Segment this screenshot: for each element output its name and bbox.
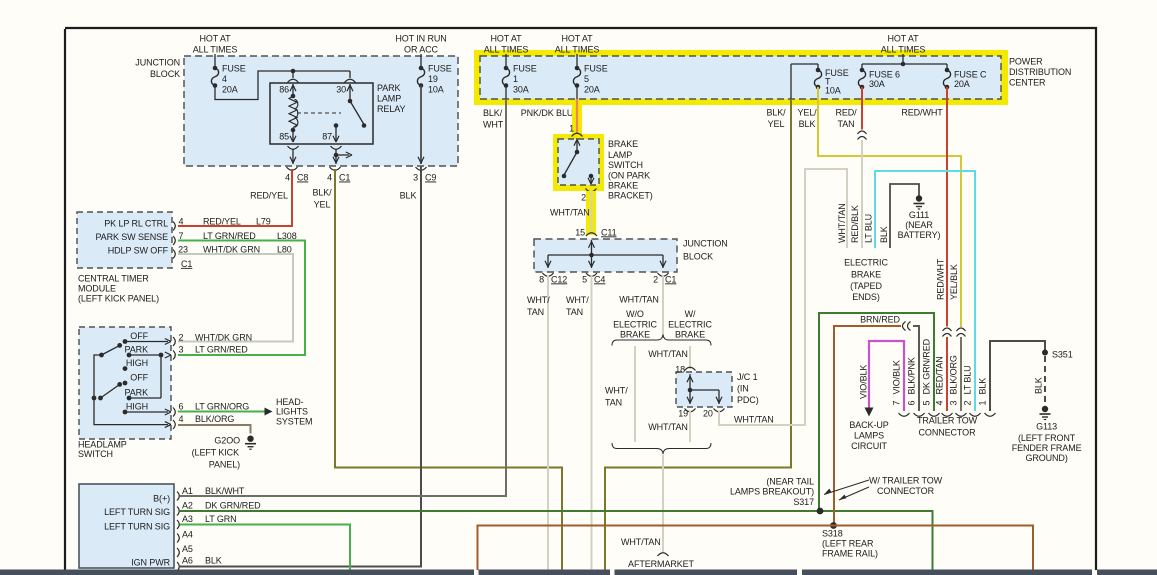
- svg-text:LIGHTS: LIGHTS: [276, 407, 308, 417]
- wire DK GRN/RED A2 across: [180, 511, 933, 570]
- wire BRN/RED to inline connector: [834, 326, 901, 526]
- svg-text:B(+): B(+): [153, 493, 170, 503]
- CTM pin 23: [173, 244, 292, 258]
- relay output connectors below box: [288, 146, 342, 149]
- wire 85 to C8: [290, 149, 296, 164]
- svg-text:A3: A3: [182, 514, 193, 524]
- svg-text:BLK/PNK: BLK/PNK: [907, 357, 917, 394]
- svg-text:BLOCK: BLOCK: [683, 251, 713, 261]
- svg-text:SYSTEM: SYSTEM: [276, 417, 312, 427]
- aftermarket connector: [658, 553, 669, 556]
- connector C4: [582, 273, 605, 284]
- svg-text:PANEL): PANEL): [209, 459, 240, 469]
- svg-text:WHT/TAN: WHT/TAN: [648, 422, 688, 432]
- svg-text:HOT AT: HOT AT: [490, 33, 522, 43]
- module pin A5: [177, 544, 193, 557]
- label WHT/TAN (C4): [566, 295, 589, 317]
- wire LT GRN/RED CTM7 to HS3: [178, 241, 305, 356]
- svg-text:5: 5: [582, 274, 587, 284]
- wire WHT/TAN pin 19 down: [689, 411, 691, 443]
- wire BLK to G111: [890, 184, 919, 248]
- trailer tow connector pin 7 VIO/BLK: [892, 360, 910, 416]
- svg-text:PNK/DK BLU: PNK/DK BLU: [521, 108, 574, 118]
- svg-text:A4: A4: [182, 529, 193, 539]
- svg-text:GROUND): GROUND): [1025, 453, 1067, 463]
- svg-text:C1: C1: [339, 173, 350, 183]
- svg-text:FUSE: FUSE: [584, 64, 608, 74]
- junction connector J/C 1: [676, 372, 759, 407]
- label YEL/BLK: [797, 108, 817, 130]
- connector C1 exit: [327, 167, 350, 183]
- svg-text:19: 19: [428, 74, 438, 84]
- wire LT BLU taped end to trailer pin 2: [875, 171, 975, 411]
- svg-text:5: 5: [922, 401, 932, 406]
- brace merge: [612, 443, 711, 454]
- svg-text:A1: A1: [182, 486, 193, 496]
- connector C11: [575, 227, 616, 237]
- HS position labels: [125, 331, 149, 412]
- trailer tow connector pin 2 LT BLU: [963, 365, 981, 416]
- svg-text:OFF: OFF: [130, 331, 148, 341]
- node HOT AT ALL TIMES (fuses 6 and C): [881, 33, 926, 54]
- svg-text:LAMPS: LAMPS: [854, 430, 884, 440]
- wire BLK/ORG to G2OO: [178, 425, 251, 434]
- HS pin 6: [165, 401, 249, 416]
- svg-text:6: 6: [907, 401, 917, 406]
- svg-text:FRAME RAIL): FRAME RAIL): [822, 548, 878, 558]
- svg-text:BLK: BLK: [799, 119, 816, 129]
- svg-text:DISTRIBUTION: DISTRIBUTION: [1009, 67, 1071, 77]
- svg-text:BLK/WHT: BLK/WHT: [205, 486, 245, 496]
- svg-text:BLK: BLK: [879, 226, 889, 243]
- svg-text:LT GRN/RED: LT GRN/RED: [203, 231, 256, 241]
- svg-text:BRAKE: BRAKE: [675, 330, 705, 340]
- svg-text:OFF: OFF: [130, 373, 148, 383]
- relay pin 30: [336, 84, 353, 101]
- CTM pin 7: [173, 231, 297, 245]
- svg-text:20A: 20A: [954, 79, 970, 89]
- wire 87 to C1 with branch: [333, 149, 352, 164]
- svg-text:4: 4: [179, 414, 184, 424]
- svg-text:TRAILER TOW: TRAILER TOW: [917, 415, 978, 425]
- svg-text:10A: 10A: [825, 85, 841, 95]
- trailer tow connector pin 1 BLK: [978, 378, 996, 417]
- brake lamp switch highlight: [553, 134, 604, 191]
- svg-text:BATTERY): BATTERY): [898, 230, 941, 240]
- svg-text:YEL: YEL: [768, 119, 785, 129]
- svg-text:4: 4: [327, 173, 332, 183]
- connector C12: [539, 273, 567, 284]
- svg-text:YEL/: YEL/: [797, 108, 817, 118]
- PDC bus to fuse T: [791, 64, 818, 99]
- svg-text:4: 4: [285, 173, 290, 183]
- svg-text:RED/WHT: RED/WHT: [901, 108, 943, 118]
- svg-text:SWITCH: SWITCH: [608, 160, 643, 170]
- junction block (left): [135, 56, 458, 166]
- svg-text:WHT/: WHT/: [605, 385, 628, 395]
- svg-text:C11: C11: [601, 227, 617, 237]
- svg-text:20A: 20A: [584, 84, 600, 94]
- node HOT AT ALL TIMES (fuse 4): [193, 33, 238, 58]
- svg-text:BLK: BLK: [978, 378, 988, 395]
- svg-text:G113: G113: [1036, 421, 1057, 431]
- svg-text:YEL/BLK: YEL/BLK: [949, 264, 959, 300]
- svg-text:30A: 30A: [869, 79, 885, 89]
- svg-text:BRAKE: BRAKE: [608, 139, 638, 149]
- svg-text:A5: A5: [182, 544, 193, 554]
- svg-text:TAN: TAN: [527, 307, 544, 317]
- relay coil/contact entry connectors: [288, 79, 356, 82]
- label WHT/TAN (left branch): [605, 385, 628, 407]
- HS contact OFF2: [123, 381, 128, 386]
- wire WHT/DK GRN CTM23 to HS2: [178, 254, 293, 342]
- svg-text:7: 7: [892, 401, 902, 406]
- svg-text:LEFT TURN SIG: LEFT TURN SIG: [104, 521, 170, 531]
- splice S351: [1042, 349, 1073, 359]
- ground G113: [1012, 406, 1082, 463]
- svg-text:LT GRN/RED: LT GRN/RED: [195, 344, 248, 354]
- ground G111: [898, 195, 941, 240]
- svg-text:LT GRN/ORG: LT GRN/ORG: [195, 401, 249, 411]
- svg-text:PK LP RL CTRL: PK LP RL CTRL: [104, 218, 168, 228]
- svg-text:ELECTRIC: ELECTRIC: [668, 319, 712, 329]
- svg-text:DK GRN/RED: DK GRN/RED: [922, 338, 932, 394]
- HS contact PARK2: [127, 396, 161, 401]
- svg-text:1: 1: [978, 401, 988, 406]
- svg-text:20: 20: [703, 408, 713, 418]
- svg-text:BRAKE: BRAKE: [608, 180, 638, 190]
- svg-text:LEFT TURN SIG: LEFT TURN SIG: [104, 507, 170, 517]
- svg-text:3: 3: [949, 401, 959, 406]
- svg-text:CENTER: CENTER: [1009, 77, 1046, 87]
- J/C1 pin 20: [703, 408, 725, 418]
- svg-text:3: 3: [413, 173, 418, 183]
- wire RED/TAN to trailer pin 4: [946, 337, 948, 411]
- svg-text:RED/YEL: RED/YEL: [203, 216, 241, 226]
- svg-text:WHT/TAN: WHT/TAN: [837, 203, 847, 243]
- svg-text:A6: A6: [182, 555, 193, 565]
- svg-text:ALL TIMES: ALL TIMES: [484, 45, 529, 55]
- svg-text:23: 23: [178, 244, 188, 254]
- svg-text:ALL TIMES: ALL TIMES: [555, 45, 600, 55]
- inline connector on YEL/BLK: [957, 328, 966, 331]
- svg-text:IGN PWR: IGN PWR: [131, 557, 170, 567]
- wire WHT/TAN highlight: [586, 191, 596, 235]
- svg-text:2: 2: [653, 274, 658, 284]
- svg-text:BRN/RED: BRN/RED: [860, 314, 900, 324]
- svg-text:FUSE: FUSE: [513, 64, 537, 74]
- pointer arrows: [824, 480, 869, 500]
- HS wiper arm 1: [99, 343, 122, 357]
- CTM caption: [78, 273, 159, 303]
- svg-text:TAN: TAN: [605, 397, 622, 407]
- HS contact OFF1: [123, 339, 168, 344]
- svg-text:C1: C1: [665, 274, 676, 284]
- HS pin 3: [165, 344, 248, 359]
- fuse 4 20A: [211, 56, 245, 94]
- connector C9 exit: [413, 167, 436, 183]
- HS common rail: [92, 355, 168, 425]
- svg-text:BLK/ORG: BLK/ORG: [949, 355, 959, 394]
- svg-text:C4: C4: [594, 274, 605, 284]
- fuse 6 30A: [858, 64, 900, 89]
- relay pin 87: [322, 123, 339, 142]
- svg-text:CONNECTOR: CONNECTOR: [877, 486, 935, 496]
- label BLK/YEL: [312, 187, 332, 209]
- svg-text:6: 6: [179, 401, 184, 411]
- relay pin 85: [279, 130, 296, 142]
- HS pin 2: [165, 332, 252, 346]
- svg-text:WHT: WHT: [483, 120, 504, 130]
- svg-text:FUSE: FUSE: [222, 64, 246, 74]
- svg-text:CONNECTOR: CONNECTOR: [919, 428, 977, 438]
- CTM pin 4: [173, 216, 271, 230]
- bottom section bar: [0, 570, 1157, 575]
- trailer tow connector pin 4 RED/TAN: [935, 356, 953, 416]
- HS contact HIGH1: [123, 366, 128, 371]
- svg-text:JUNCTION: JUNCTION: [135, 57, 180, 67]
- svg-text:30A: 30A: [513, 84, 529, 94]
- wire WHT/TAN C12 down: [547, 275, 549, 570]
- svg-text:W/ TRAILER TOW: W/ TRAILER TOW: [869, 475, 943, 485]
- svg-text:FENDER FRAME: FENDER FRAME: [1012, 443, 1082, 453]
- trailer tow connector pin 3 BLK/ORG: [949, 355, 967, 416]
- wire WHT/TAN pin 20 to taped end: [719, 169, 847, 425]
- inline connector on RED/WHT: [943, 328, 952, 331]
- svg-text:BLK: BLK: [205, 555, 222, 565]
- J/C1 pin 18: [675, 364, 695, 390]
- svg-text:RELAY: RELAY: [377, 104, 405, 114]
- label BACK-UP LAMPS CIRCUIT: [849, 420, 888, 451]
- HS contact PARK1: [127, 353, 164, 398]
- central timer module: [77, 212, 172, 268]
- svg-text:(NEAR TAIL: (NEAR TAIL: [766, 476, 814, 486]
- brake switch pin 2: [581, 176, 596, 202]
- svg-text:4: 4: [222, 74, 227, 84]
- wire DK GRN/RED pin5 to S317: [819, 313, 934, 509]
- wire WHT/TAN C4 down: [591, 275, 593, 570]
- relay armature (30 to 87): [348, 99, 367, 128]
- wire BLK/WHT fuse1 to module A1: [180, 99, 506, 496]
- svg-text:C1: C1: [181, 259, 192, 269]
- J/C1 internal bus: [687, 388, 722, 404]
- label TRAILER TOW CONNECTOR: [917, 415, 978, 437]
- wire BLK/ORG to trailer pin 3: [960, 337, 962, 411]
- wire PNK/DK BLU highlight: [572, 103, 582, 136]
- svg-text:G111: G111: [909, 210, 929, 220]
- label W/O ELECTRIC BRAKE: [613, 309, 657, 340]
- svg-text:HOT AT: HOT AT: [887, 33, 919, 43]
- brake lamp switch S1: [558, 139, 653, 200]
- relay internal dashed link: [297, 112, 341, 114]
- svg-text:TAN: TAN: [837, 119, 854, 129]
- wire BLK/YEL C1 down and across: [335, 169, 562, 570]
- wire RED/WHT fuse C down: [946, 87, 948, 327]
- svg-text:BLK: BLK: [400, 190, 417, 200]
- relay coil: [289, 94, 298, 133]
- svg-text:4: 4: [935, 401, 945, 406]
- svg-text:2: 2: [581, 192, 586, 202]
- svg-text:PARK: PARK: [377, 83, 401, 93]
- svg-text:87: 87: [322, 132, 332, 142]
- svg-text:30: 30: [336, 85, 346, 95]
- fuse 19 10A: [417, 56, 451, 94]
- wire WHT/TAN w/ electric brake branch: [689, 346, 691, 369]
- connector C1 (JB2): [653, 273, 676, 284]
- wire YEL/BLK fuse T to trailer pin 3: [818, 87, 961, 327]
- power distribution center box: [480, 56, 1071, 99]
- svg-text:1: 1: [513, 74, 518, 84]
- svg-text:C9: C9: [425, 173, 436, 183]
- svg-text:TAN: TAN: [566, 307, 583, 317]
- svg-text:ELECTRIC: ELECTRIC: [844, 257, 888, 267]
- wire RED/YEL C8 to CTM pin 4: [178, 169, 292, 226]
- splice S317: [817, 508, 824, 515]
- svg-text:S318: S318: [822, 528, 843, 538]
- svg-text:ENDS): ENDS): [852, 292, 880, 302]
- power distribution center highlight: [474, 50, 1008, 105]
- fuse T 10A: [814, 64, 848, 95]
- svg-text:8: 8: [539, 274, 544, 284]
- label NEAR TAIL LAMPS BREAKOUT S317: [730, 476, 814, 507]
- svg-text:LAMP: LAMP: [608, 150, 632, 160]
- svg-text:WHT/TAN: WHT/TAN: [550, 208, 590, 218]
- svg-text:WHT/TAN: WHT/TAN: [648, 349, 688, 359]
- svg-text:RED/BLK: RED/BLK: [850, 205, 860, 243]
- inline connector BRN/RED to BLK/PNK: [903, 322, 906, 331]
- HS wiper arm 2: [98, 382, 122, 400]
- fuse 5 20A: [573, 54, 607, 99]
- wire BLK/PNK to trailer pin 6: [913, 326, 919, 411]
- svg-text:S351: S351: [1052, 349, 1073, 359]
- svg-text:C8: C8: [297, 173, 308, 183]
- svg-text:DK GRN/RED: DK GRN/RED: [205, 500, 261, 510]
- svg-text:BRAKE: BRAKE: [620, 330, 650, 340]
- label S318 LEFT REAR FRAME RAIL: [822, 528, 878, 558]
- svg-text:(LEFT FRONT: (LEFT FRONT: [1018, 433, 1076, 443]
- svg-text:(LEFT KICK PANEL): (LEFT KICK PANEL): [78, 293, 159, 303]
- wire RED/TAN fuse 6: [861, 87, 863, 130]
- label WHT/TAN (C12): [527, 295, 550, 317]
- svg-text:20A: 20A: [222, 84, 238, 94]
- label BLK/WHT: [483, 108, 504, 130]
- wire RED/BLK taped end: [861, 140, 863, 248]
- svg-text:5: 5: [584, 74, 589, 84]
- relay pin 86: [279, 84, 296, 96]
- wire WHT/TAN brake switch to C11: [591, 191, 593, 233]
- svg-text:WHT/TAN: WHT/TAN: [734, 415, 774, 425]
- svg-text:L80: L80: [277, 244, 292, 254]
- svg-text:19: 19: [678, 408, 688, 418]
- svg-text:ALL TIMES: ALL TIMES: [193, 45, 238, 55]
- svg-text:HIGH: HIGH: [126, 402, 148, 412]
- svg-text:BLK: BLK: [1034, 377, 1044, 394]
- wire WHT/TAN w/o electric brake branch: [634, 346, 636, 442]
- svg-text:VIO/BLK: VIO/BLK: [859, 365, 869, 399]
- svg-text:LT BLU: LT BLU: [963, 365, 973, 394]
- svg-text:HEAD-: HEAD-: [276, 397, 304, 407]
- svg-text:L308: L308: [277, 231, 297, 241]
- wire fuse4 to relay bus: [215, 69, 350, 100]
- node HOT AT ALL TIMES (fuse 1): [484, 33, 529, 54]
- splice S318: [830, 522, 837, 529]
- svg-text:4: 4: [179, 216, 184, 226]
- svg-text:LT GRN: LT GRN: [205, 514, 237, 524]
- label RED/TAN: [835, 108, 857, 130]
- svg-text:LAMPS BREAKOUT): LAMPS BREAKOUT): [730, 486, 814, 496]
- svg-text:RED/: RED/: [835, 108, 857, 118]
- wire BLK C9 to module A6: [180, 166, 421, 567]
- svg-text:(LEFT KICK: (LEFT KICK: [192, 447, 239, 457]
- node HOT AT ALL TIMES (fuse 5): [555, 33, 600, 54]
- inline connector on RED/TAN: [858, 131, 867, 134]
- svg-text:(IN: (IN: [737, 383, 749, 393]
- headlamp switch: [79, 327, 171, 439]
- svg-text:1: 1: [569, 123, 574, 133]
- PDC bus hot at all times: [862, 54, 947, 66]
- module pin A1: [177, 486, 245, 501]
- wire LT GRN A3: [180, 525, 350, 571]
- module pin A6: [177, 555, 222, 571]
- svg-text:YEL: YEL: [314, 199, 331, 209]
- wire BLK pin 1 to S351: [990, 341, 1045, 411]
- trailer tow connector pin 6 BLK/PNK: [907, 357, 925, 416]
- label BLK/YEL (PDC): [766, 108, 786, 130]
- svg-text:VIO/BLK: VIO/BLK: [892, 360, 902, 394]
- HS pin 4: [165, 414, 235, 429]
- svg-text:18: 18: [675, 364, 685, 374]
- brace split: [612, 335, 711, 346]
- svg-text:(LEFT REAR: (LEFT REAR: [822, 538, 874, 548]
- svg-text:ELECTRIC: ELECTRIC: [613, 319, 657, 329]
- svg-text:15: 15: [575, 227, 585, 237]
- label W/ ELECTRIC BRAKE: [668, 309, 712, 340]
- svg-text:2: 2: [179, 332, 184, 342]
- svg-text:(NEAR: (NEAR: [905, 220, 933, 230]
- svg-text:WHT/DK GRN: WHT/DK GRN: [195, 332, 252, 342]
- svg-text:HDLP SW OFF: HDLP SW OFF: [108, 245, 169, 255]
- svg-text:BLK/ORG: BLK/ORG: [195, 414, 234, 424]
- svg-text:SWITCH: SWITCH: [78, 449, 113, 459]
- svg-text:WHT/: WHT/: [527, 295, 550, 305]
- svg-text:WHT/TAN: WHT/TAN: [621, 537, 661, 547]
- svg-text:W/O: W/O: [626, 309, 644, 319]
- svg-text:FUSE 6: FUSE 6: [869, 69, 900, 79]
- turn signal module: [79, 484, 174, 568]
- svg-text:S317: S317: [793, 497, 814, 507]
- junction block 2 internal bus: [545, 240, 666, 268]
- HS caption: [78, 439, 127, 459]
- HS contact HIGH2: [123, 410, 168, 415]
- brake switch pin 1: [569, 123, 582, 152]
- svg-text:JUNCTION: JUNCTION: [683, 238, 728, 248]
- svg-text:(TAPED: (TAPED: [850, 281, 882, 291]
- park lamp relay U1: [270, 83, 405, 144]
- wire VIO/BLK pin7 to back-up lamps: [865, 341, 905, 417]
- svg-text:FUSE C: FUSE C: [954, 69, 987, 79]
- svg-text:3: 3: [179, 344, 184, 354]
- svg-text:AFTERMARKET: AFTERMARKET: [628, 559, 695, 569]
- svg-text:7: 7: [179, 231, 184, 241]
- svg-text:WHT/: WHT/: [566, 295, 589, 305]
- label ELECTRIC BRAKE (TAPED ENDS): [844, 257, 888, 302]
- svg-text:HEADLAMP: HEADLAMP: [78, 439, 127, 449]
- J/C1 pin 19: [678, 408, 695, 418]
- ground G2OO: [192, 435, 256, 469]
- svg-text:RED/TAN: RED/TAN: [935, 356, 945, 394]
- svg-text:RED/WHT: RED/WHT: [936, 258, 946, 300]
- node HOT IN RUN OR ACC (fuse 19): [395, 33, 446, 58]
